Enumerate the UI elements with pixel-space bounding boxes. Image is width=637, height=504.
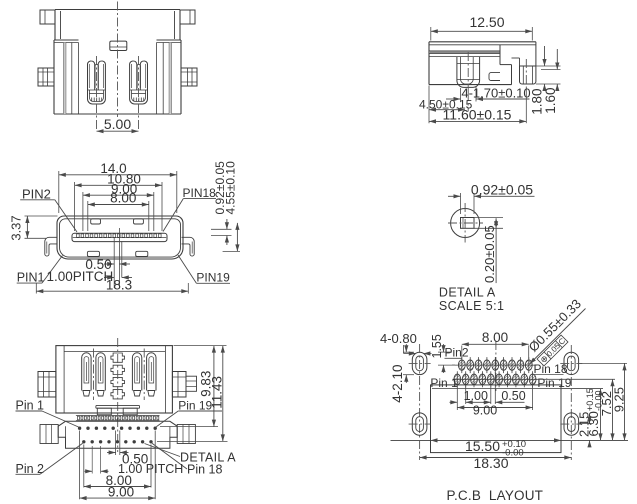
- svg-text:DETAIL A: DETAIL A: [180, 451, 236, 465]
- dimension 1.00 PITCH (bottom view): [85, 446, 184, 476]
- pcb layout: pad row pins 2-18: [458, 357, 532, 373]
- bottom view: pin row 2 (pins 2-18 even): [82, 440, 153, 443]
- dimension 8.00 (bottom view): [84, 445, 151, 489]
- front view: centerline extension lines 0.50: [114, 228, 122, 288]
- svg-text:9.00: 9.00: [473, 404, 497, 418]
- svg-text:Pin 2: Pin 2: [16, 462, 45, 476]
- svg-text:5.00: 5.00: [104, 116, 131, 132]
- bottom view: pin row 1 (pins 1-19 odd): [78, 427, 157, 430]
- bottom view: lower housing outline: [58, 421, 177, 448]
- dimension 4-2.10 (pcb, vertical): [390, 344, 414, 403]
- dimension 0.50 (bottom view): [107, 431, 148, 467]
- label Pin 1 (pcb): [430, 376, 458, 390]
- bottom view: right spring contact fork: [132, 349, 156, 401]
- svg-text:12.50: 12.50: [469, 14, 504, 30]
- side view: pin centerline: [467, 52, 469, 92]
- svg-text:0.92±0.05: 0.92±0.05: [471, 181, 533, 197]
- svg-text:15.50: 15.50: [465, 438, 500, 454]
- detail A: extension to 0.20 dim: [474, 218, 503, 229]
- front view: left mounting leg: [45, 237, 58, 256]
- svg-text:Pin 18: Pin 18: [534, 362, 568, 376]
- label Pin 19 (pcb): [537, 376, 571, 390]
- pcb layout: pad row pins 1-19: [454, 371, 536, 387]
- bottom view: body outline: [56, 346, 172, 413]
- svg-text:DETAIL A: DETAIL A: [439, 286, 496, 300]
- pcb layout: footprint rectangle: [431, 385, 562, 453]
- detail A: pin square: [461, 218, 475, 229]
- svg-text:18.30: 18.30: [473, 455, 508, 471]
- svg-text:18.3: 18.3: [106, 277, 132, 292]
- dimension 1.00 (pcb): [450, 385, 489, 405]
- svg-text:8.00: 8.00: [482, 330, 508, 345]
- dimension 4-0.80 with leader (pcb): [380, 331, 432, 356]
- dimension 9.25 (pcb, vertical): [579, 363, 628, 440]
- dimension 0.50 (front): [85, 257, 130, 272]
- top view: vertical centerline: [117, 2, 119, 118]
- svg-text:9.00: 9.00: [108, 485, 134, 500]
- top view: contact centerlines (extension lines for 5.00): [97, 56, 139, 132]
- dimension 4.55±0.10 (front, vertical): [223, 161, 240, 252]
- pcb layout: mounting hole bottom-left: [409, 413, 431, 435]
- svg-text:Pin 19: Pin 19: [178, 399, 212, 413]
- label Pin 18 with leader (bottom view): [152, 443, 222, 476]
- label PIN19 with leader: [178, 255, 230, 284]
- svg-text:Pin 19: Pin 19: [537, 376, 571, 390]
- detail A: crosshair centerlines: [448, 203, 483, 243]
- label Pin 2 with leader (bottom view): [16, 443, 83, 476]
- side view: body outline: [429, 42, 536, 85]
- front view: right mounting leg: [182, 237, 195, 256]
- dimension 8.00 (front): [88, 191, 149, 231]
- front view: top dimples: [91, 219, 144, 224]
- side view: solder clip centerline: [525, 59, 527, 91]
- dimension 0.92±0.05 (detail A): [448, 181, 535, 214]
- svg-text:4-0.80: 4-0.80: [380, 331, 417, 346]
- dimension 1.80 (vertical): [530, 46, 561, 115]
- side view: solder clip bracket: [512, 42, 536, 84]
- svg-text:PIN19: PIN19: [196, 270, 230, 284]
- pcb layout: mounting hole top-right: [560, 345, 582, 460]
- dimension 5.00: [97, 116, 139, 133]
- svg-text:PIN1: PIN1: [17, 270, 45, 284]
- label Pin2 (pcb): [445, 346, 469, 360]
- dimension 18.30 (pcb): [420, 455, 572, 471]
- dimension 9.83 (vertical, bottom view): [160, 346, 227, 427]
- svg-text:1.55: 1.55: [430, 334, 444, 358]
- dimension 11.43 (vertical, bottom view): [157, 346, 228, 442]
- pcb layout: board reference line: [391, 439, 629, 441]
- label Pin 18 (pcb): [534, 362, 568, 376]
- front view: bottom dimples: [87, 251, 147, 256]
- front view: shell outer contour: [57, 216, 183, 259]
- svg-text:P.C.B LAYOUT: P.C.B LAYOUT: [447, 488, 544, 503]
- dimension 4-1.70±0.10: [446, 85, 531, 101]
- front view: contact tongue with 19 contacts: [72, 233, 167, 241]
- dimension 9.00 (bottom view): [80, 431, 156, 501]
- dimension 0.92±0.05 (front, vertical): [211, 161, 232, 245]
- svg-text:3.37: 3.37: [9, 215, 24, 240]
- dimension 11.60±0.15: [429, 88, 526, 124]
- bottom view: contact teeth strip: [76, 415, 160, 420]
- pcb layout: mounting hole top-left: [409, 344, 431, 460]
- side view: through-hole pin foot: [457, 57, 480, 88]
- svg-text:Pin2: Pin2: [445, 346, 469, 360]
- top view: latch plate: [110, 41, 127, 50]
- svg-text:11.60±0.15: 11.60±0.15: [443, 107, 512, 123]
- dimension 9.00 (pcb): [457, 385, 532, 418]
- top view: right spring contact: [130, 61, 148, 104]
- bottom view: center support bar with feet: [96, 406, 140, 415]
- dimension 2.15 (pcb, vertical): [576, 412, 593, 448]
- svg-text:9.25: 9.25: [611, 387, 626, 412]
- svg-text:0.20±0.05: 0.20±0.05: [482, 225, 497, 283]
- dimension 0.50 (pcb): [483, 372, 526, 404]
- label Pin 19 with leader (bottom view): [156, 399, 222, 427]
- side view: notch: [489, 73, 500, 81]
- dimension 6.30 +0.15/-0.00 (pcb, vertical): [561, 388, 604, 440]
- pcb layout: pin row reference lines: [432, 365, 603, 389]
- dimension 10.80: [75, 171, 162, 231]
- dimension 14.0: [59, 161, 177, 213]
- dimension 15.50 +0.10/-0.00 (pcb): [431, 438, 562, 458]
- dimension 8.00 (pcb): [462, 330, 529, 359]
- detail A: pin cross-section circle: [451, 209, 480, 238]
- dimension 1.00PITCH (front): [47, 269, 133, 284]
- label DETAIL A with leader (bottom view): [145, 444, 237, 465]
- svg-text:1.00PITCH: 1.00PITCH: [47, 269, 114, 284]
- svg-text:4-2.10: 4-2.10: [390, 365, 405, 403]
- svg-text:8.00: 8.00: [110, 191, 136, 206]
- top view: lower-left mounting tab: [38, 68, 54, 86]
- top view: lower-right mounting tab: [181, 68, 197, 86]
- detail A scale text: [439, 299, 504, 313]
- geometric tolerance frame: [537, 335, 568, 366]
- pcb layout: centerline: [495, 341, 497, 391]
- bottom view: left side tab: [38, 372, 56, 398]
- front view: shell inner contour: [60, 219, 181, 257]
- svg-text:1.60: 1.60: [543, 88, 558, 114]
- label PIN18 with leader: [163, 186, 216, 231]
- bottom view: lower left tab: [40, 425, 58, 444]
- dimension 1.60 (vertical): [541, 49, 561, 114]
- svg-text:Pin 1: Pin 1: [430, 376, 458, 390]
- dimension 9.00 (front): [83, 181, 154, 231]
- dimension 7.52 (pcb, vertical): [537, 379, 615, 440]
- label PIN1 with leader: [17, 256, 63, 285]
- dimension 0.20±0.05 (detail A, vertical): [482, 218, 498, 283]
- svg-text:SCALE 5:1: SCALE 5:1: [439, 299, 504, 313]
- svg-text:4.55±0.10: 4.55±0.10: [224, 161, 238, 215]
- dimension 1.55 (pcb, vertical): [430, 334, 455, 373]
- svg-text:0.50: 0.50: [501, 389, 525, 403]
- dimension 12.50: [431, 14, 533, 41]
- label Pin 1 with leader (bottom view): [16, 398, 79, 427]
- datum callout 0.55±0.33 diagonal: [525, 296, 585, 364]
- top view: shield body outline: [54, 10, 181, 115]
- bottom view: left spring contact fork: [82, 349, 106, 401]
- svg-text:PIN18: PIN18: [183, 186, 217, 200]
- top view: upper-left mounting tab: [40, 10, 55, 24]
- pcb layout: mounting hole bottom-right: [560, 413, 582, 435]
- P.C.B LAYOUT title: [447, 488, 544, 503]
- svg-text:PIN2: PIN2: [22, 186, 51, 201]
- bottom view: lower right tab: [177, 425, 195, 444]
- bottom view: right side tab with solder lug: [172, 372, 196, 398]
- top view: left spring contact: [88, 61, 106, 104]
- label PIN2 with leader: [20, 186, 77, 232]
- dimension 4.50±0.15: [419, 86, 473, 124]
- svg-text:11.43: 11.43: [210, 376, 225, 409]
- svg-text:Pin 1: Pin 1: [16, 398, 45, 412]
- dimension 18.3: [36, 277, 188, 293]
- top view: upper-right mounting tab: [180, 10, 195, 24]
- detail A title text: [439, 286, 496, 300]
- dimension 3.37 (vertical): [9, 215, 58, 240]
- bottom view: center EMI spring zigzag: [111, 338, 125, 452]
